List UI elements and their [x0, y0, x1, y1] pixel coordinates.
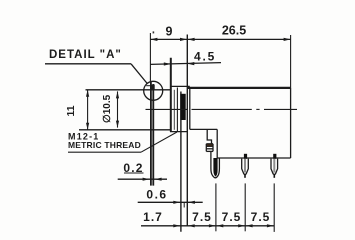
detail label underline: [45, 63, 131, 65]
svg-text:9: 9: [166, 24, 173, 38]
svg-text:METRIC THREAD: METRIC THREAD: [68, 140, 141, 150]
dim line 9 / 26.5: [150, 38, 290, 40]
svg-text:7.5: 7.5: [192, 210, 212, 224]
pin 2 tip: [244, 175, 246, 178]
stack top: [206, 143, 213, 145]
ext line right of 26.5: [290, 35, 292, 88]
pin 3 root stub: [273, 154, 276, 159]
0.2 underline: [124, 172, 144, 174]
detail circle A: [144, 81, 163, 100]
pin 1 centerline: [215, 183, 217, 231]
0.6 stub tick: [183, 202, 185, 207]
ext line mid (9/26.5 junction, long): [186, 35, 188, 226]
body corner vertical: [216, 129, 218, 158]
flange top edge / ext line: [86, 89, 171, 91]
thread top edge: [170, 85, 190, 87]
flange bottom edge / ext line: [79, 129, 171, 131]
ext overshoot dot: [153, 31, 155, 33]
pin 2 root stub: [244, 154, 247, 159]
body left face: [189, 88, 191, 129]
metric thread leader: [141, 132, 177, 152]
detail leader line: [131, 64, 147, 84]
pin 3 outline: [271, 159, 278, 175]
ext line left of 9: [149, 33, 151, 82]
pin 2 core shading: [244, 159, 246, 173]
svg-text:DETAIL "A": DETAIL "A": [49, 49, 122, 61]
body right face: [290, 88, 292, 158]
pin 3 tip: [273, 175, 275, 178]
flange front face line 2: [152, 84, 154, 186]
stack left: [205, 144, 207, 152]
dim line 4.5: [150, 63, 221, 65]
body bottom edge: [217, 157, 290, 159]
pin 2 centerline: [244, 183, 246, 231]
svg-text:1.7: 1.7: [143, 210, 163, 224]
panel line left (long): [180, 92, 182, 232]
centerline dash 3: [264, 108, 297, 110]
centerline dash 1: [146, 108, 188, 110]
svg-text:7.5: 7.5: [251, 210, 271, 224]
flange right face: [170, 58, 172, 132]
svg-text:11: 11: [65, 105, 77, 116]
body top edge: [187, 87, 290, 89]
stack band fill: [206, 144, 213, 146]
thread bottom edge: [170, 131, 187, 133]
flange front face line 1: [150, 82, 152, 186]
centerline dash 2: [192, 108, 252, 110]
pin 1 core: [213, 158, 217, 177]
dim line 0.2: [118, 178, 167, 180]
stack right: [212, 144, 214, 152]
thread line a: [173, 90, 175, 130]
groove lip line: [146, 85, 151, 87]
groove nub in detail: [151, 85, 155, 90]
stack mid2: [206, 148, 213, 150]
pin 3 core shading: [273, 159, 275, 173]
svg-text:4.5: 4.5: [194, 49, 216, 63]
dim line 0.6: [138, 201, 203, 203]
dim line 11: [87, 90, 89, 130]
dim line dia 10.5: [117, 91, 119, 127]
metric thread underline: [68, 151, 141, 153]
stack mid1: [206, 145, 213, 147]
centerline dot: [256, 108, 259, 110]
svg-text:∅10.5: ∅10.5: [102, 94, 113, 123]
body ledge: [190, 128, 217, 130]
pin 2 outline: [242, 159, 249, 175]
svg-text:0.6: 0.6: [146, 187, 167, 201]
stack bottom: [206, 150, 213, 152]
pin 1 sleeve: [211, 152, 220, 178]
thread line b: [176, 88, 178, 132]
pin 3 centerline: [273, 183, 275, 232]
svg-text:7.5: 7.5: [222, 210, 242, 224]
bottom dim line: [141, 225, 275, 227]
washer black bar: [180, 94, 185, 120]
svg-text:26.5: 26.5: [222, 24, 246, 38]
step jog: [207, 129, 211, 143]
